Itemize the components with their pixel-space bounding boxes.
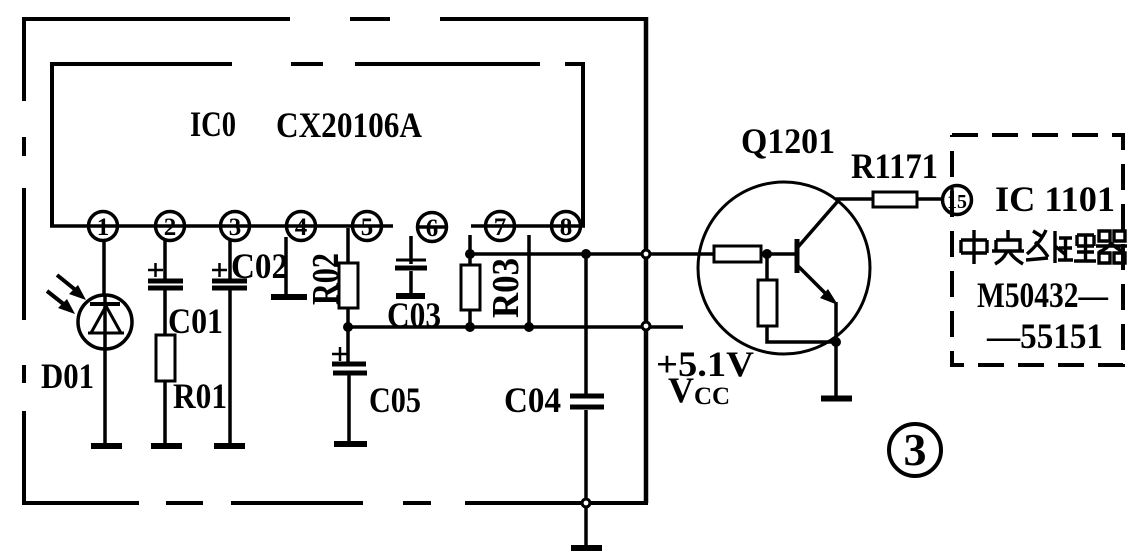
ring junction rail1 x646 xyxy=(642,250,650,258)
label IC 1101 xyxy=(995,179,1115,219)
wire collector to R1171 xyxy=(836,197,873,201)
capacitor C01 xyxy=(148,263,183,288)
ground bar bottom xyxy=(571,545,602,551)
IC0 box top edge (dashed) xyxy=(50,62,584,66)
svg-text:7: 7 xyxy=(494,214,507,241)
svg-text:D01: D01 xyxy=(41,356,94,396)
label 中央处理器 (drawn strokes) xyxy=(961,230,1127,264)
ground bar D01 xyxy=(91,443,122,449)
svg-text:C05: C05 xyxy=(369,380,421,420)
pin 15 of IC1101 xyxy=(943,186,972,215)
label C04 xyxy=(504,380,561,420)
wire base resistor to base xyxy=(761,252,797,256)
pin 7 xyxy=(486,212,515,242)
label Q1201 xyxy=(741,121,835,161)
pin 1 xyxy=(89,212,118,242)
label C01 xyxy=(168,301,223,341)
svg-text:—55151: —55151 xyxy=(986,316,1103,356)
wire R01 to ground xyxy=(163,381,167,444)
node dot R03 top / rail1 xyxy=(465,249,475,259)
resistor R01 xyxy=(156,335,175,381)
char 中 xyxy=(961,230,987,264)
node dot emitter/bias xyxy=(831,337,841,347)
wire to bottom ground xyxy=(584,508,588,546)
ring junction C04/bottom border xyxy=(582,499,590,507)
char 理 xyxy=(1058,235,1096,261)
photodiode D01 xyxy=(78,295,132,349)
label IC0 CX20106A xyxy=(190,104,422,145)
outer box right edge / Vcc rail wire xyxy=(644,17,649,503)
svg-text:3: 3 xyxy=(904,424,927,475)
wire R02 to node xyxy=(346,308,350,327)
base resistor (in Q1201) xyxy=(714,246,761,262)
capacitor C03 xyxy=(395,236,427,294)
wire R03 to rail2 xyxy=(468,310,472,327)
IC0 box right edge xyxy=(581,62,585,227)
label R1171 xyxy=(851,146,938,186)
node dot stub/rail2 xyxy=(524,322,534,332)
label R03 (rotated) xyxy=(485,258,527,318)
resistor R1171 xyxy=(873,192,917,207)
light arrow 1 xyxy=(57,275,86,300)
wire C02 to ground xyxy=(228,290,232,444)
svg-text:IC0: IC0 xyxy=(190,104,236,144)
svg-text:6: 6 xyxy=(426,215,439,242)
wire D01 to ground xyxy=(103,349,107,444)
wire C01 to R01 xyxy=(163,290,167,335)
svg-text:8: 8 xyxy=(560,214,573,241)
pin 3 xyxy=(221,212,250,242)
svg-text:5: 5 xyxy=(361,214,374,241)
svg-text:R1171: R1171 xyxy=(851,146,938,186)
capacitor C02 xyxy=(212,263,247,288)
svg-text:C03: C03 xyxy=(387,295,441,335)
stub wire pin8 area to rail2 xyxy=(527,235,531,327)
pin4 stub wire xyxy=(284,237,288,295)
ground bar pin4 xyxy=(271,294,307,300)
wire pin5 line to R02 xyxy=(346,228,350,263)
node dot R02/C05/rail2 xyxy=(343,322,353,332)
outer dashed box left edge xyxy=(22,17,26,505)
resistor R02 xyxy=(339,263,358,308)
svg-text:2: 2 xyxy=(164,214,177,241)
wire C04 top xyxy=(584,254,588,394)
svg-text:IC 1101: IC 1101 xyxy=(995,179,1115,219)
circled figure number 3 xyxy=(889,424,941,476)
emitter wire down xyxy=(834,302,838,396)
svg-text:CX20106A: CX20106A xyxy=(276,105,422,145)
svg-text:3: 3 xyxy=(229,214,242,241)
label D01 xyxy=(41,356,94,396)
label C03 xyxy=(387,295,441,335)
IC0 box bottom edge / pin row wire xyxy=(50,226,585,227)
label R02 (rotated) xyxy=(305,253,347,305)
emitter line with arrow xyxy=(798,266,838,305)
wire pin line to R03 xyxy=(468,235,472,265)
ground bar R01 xyxy=(151,443,182,449)
light arrow 2 xyxy=(47,291,75,314)
svg-text:C02: C02 xyxy=(231,246,288,286)
capacitor C05 xyxy=(332,327,367,373)
ground bar C02 xyxy=(214,443,245,449)
char 器 xyxy=(1096,231,1127,263)
char 处 xyxy=(1026,230,1066,263)
wire R1171 to pin 15 xyxy=(917,197,943,201)
label Vcc xyxy=(668,370,730,410)
pin 6 xyxy=(418,213,447,243)
label C05 xyxy=(369,380,421,420)
rail 2 wire xyxy=(348,325,683,329)
bias resistor wire bottom xyxy=(767,326,836,342)
wire C05 to ground xyxy=(347,375,351,441)
svg-text:R03: R03 xyxy=(485,258,527,318)
label M50432- xyxy=(977,275,1109,315)
ground bar Q1201 emitter xyxy=(821,396,852,402)
pin 8 xyxy=(552,212,581,242)
wire pin2 to C01 xyxy=(163,240,167,279)
label C02 xyxy=(231,246,288,286)
wire C04 to bottom xyxy=(584,410,588,498)
outer dashed box bottom edge xyxy=(24,501,648,505)
outer dashed box top edge xyxy=(23,17,646,21)
transistor base bar xyxy=(795,239,800,273)
bias resistor wire top xyxy=(765,254,769,280)
label -55151 xyxy=(986,316,1103,356)
node dot R03 bottom xyxy=(465,322,475,332)
pin 5 xyxy=(353,212,382,242)
node dot rail1/C04 xyxy=(581,249,591,259)
svg-text:Q1201: Q1201 xyxy=(741,121,835,161)
wire pin3 to C02 xyxy=(228,240,232,279)
svg-text:4: 4 xyxy=(295,214,308,241)
label R01 xyxy=(173,376,227,416)
svg-text:R02: R02 xyxy=(305,253,347,305)
resistor R03 xyxy=(461,265,480,310)
bias resistor (in Q1201) xyxy=(758,280,777,326)
C03 end bar xyxy=(396,293,425,299)
svg-text:C04: C04 xyxy=(504,380,561,420)
pin 4 xyxy=(287,212,316,242)
IC0 box left edge xyxy=(50,62,54,227)
rail 1 wire (Vcc feed to base) xyxy=(470,252,714,256)
node dot base xyxy=(762,249,772,259)
wire pin1 to D01 xyxy=(102,240,106,296)
collector line xyxy=(798,201,838,247)
svg-text:1: 1 xyxy=(97,214,110,241)
label +5.1V xyxy=(656,344,754,384)
ground bar C05 xyxy=(334,441,367,447)
capacitor C04 xyxy=(570,396,604,407)
svg-text:R01: R01 xyxy=(173,376,227,416)
IC1101 dashed box xyxy=(952,135,1123,365)
pin 2 xyxy=(156,212,185,242)
ring junction rail2 x646 xyxy=(642,322,650,330)
svg-text:M50432—: M50432— xyxy=(977,275,1109,315)
char 央 xyxy=(992,230,1024,264)
transistor Q1201 circle xyxy=(698,182,870,354)
